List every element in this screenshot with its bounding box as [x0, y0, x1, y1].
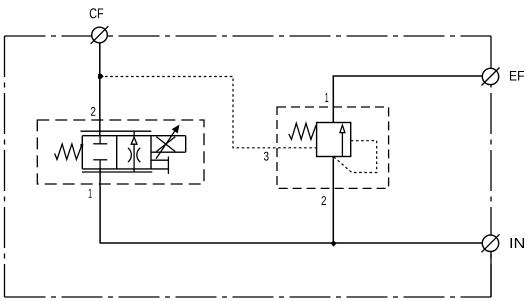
label V1 port 2	[91, 107, 96, 116]
label EF	[510, 71, 524, 81]
valve V1 top pilot overline	[81, 130, 152, 132]
junction node on CF line (pilot tap)	[98, 74, 104, 79]
valve V2 flow path arrow	[341, 133, 343, 157]
port CF symbol	[92, 27, 108, 43]
label V2 port 1	[325, 93, 328, 102]
valve V1 orifice arcs	[128, 148, 131, 162]
machine boundary border (dash-dot)	[5, 36, 492, 297]
wire V2 port 1 up and right to EF	[333, 76, 482, 123]
valve V1 enclosure (dashed)	[37, 120, 204, 184]
wire V2 port 2 down to IN line	[332, 157, 334, 244]
valve V1 adjustment arrow	[156, 129, 177, 159]
label IN	[511, 238, 524, 248]
valve V1 blocked port T top	[99, 136, 101, 144]
label V1 port 1	[89, 189, 92, 198]
wire CF port to valve V1 port 2	[99, 43, 101, 136]
valve V1 bypass X diagonals	[156, 137, 175, 152]
valve V1 cell divider 1	[116, 136, 118, 169]
label CF	[90, 8, 103, 18]
port IN symbol	[482, 235, 498, 251]
wire V1 port 1 down and right to IN	[100, 169, 483, 243]
port EF symbol	[482, 68, 498, 84]
valve V1 flow arrowhead (hollow)	[131, 137, 137, 144]
valve V1 spring	[55, 144, 83, 160]
valve V1 throttle flow path	[133, 131, 135, 172]
valve V2 spring	[289, 123, 317, 139]
valve V2 body square	[317, 123, 351, 157]
valve V1 cell divider 2	[150, 136, 152, 169]
junction node on IN line	[331, 240, 337, 247]
valve V1 blocked port T bottom	[93, 159, 107, 161]
valve V2 pilot loop (dotted)	[334, 141, 377, 173]
valve V1 body outline	[82, 136, 185, 169]
valve V1 drain channel lines	[151, 159, 168, 161]
valve V1 bottom pilot overline	[82, 171, 152, 173]
label V2 port 3	[264, 152, 269, 161]
pilot line (dotted) from CF junction to V2 port 3	[100, 77, 317, 148]
valve V2 enclosure (dashed)	[277, 107, 389, 188]
label V2 port 2	[322, 196, 327, 205]
valve V1 spring attachment dot	[80, 144, 83, 147]
wire IN port to bottom border (solid)	[490, 250, 492, 297]
